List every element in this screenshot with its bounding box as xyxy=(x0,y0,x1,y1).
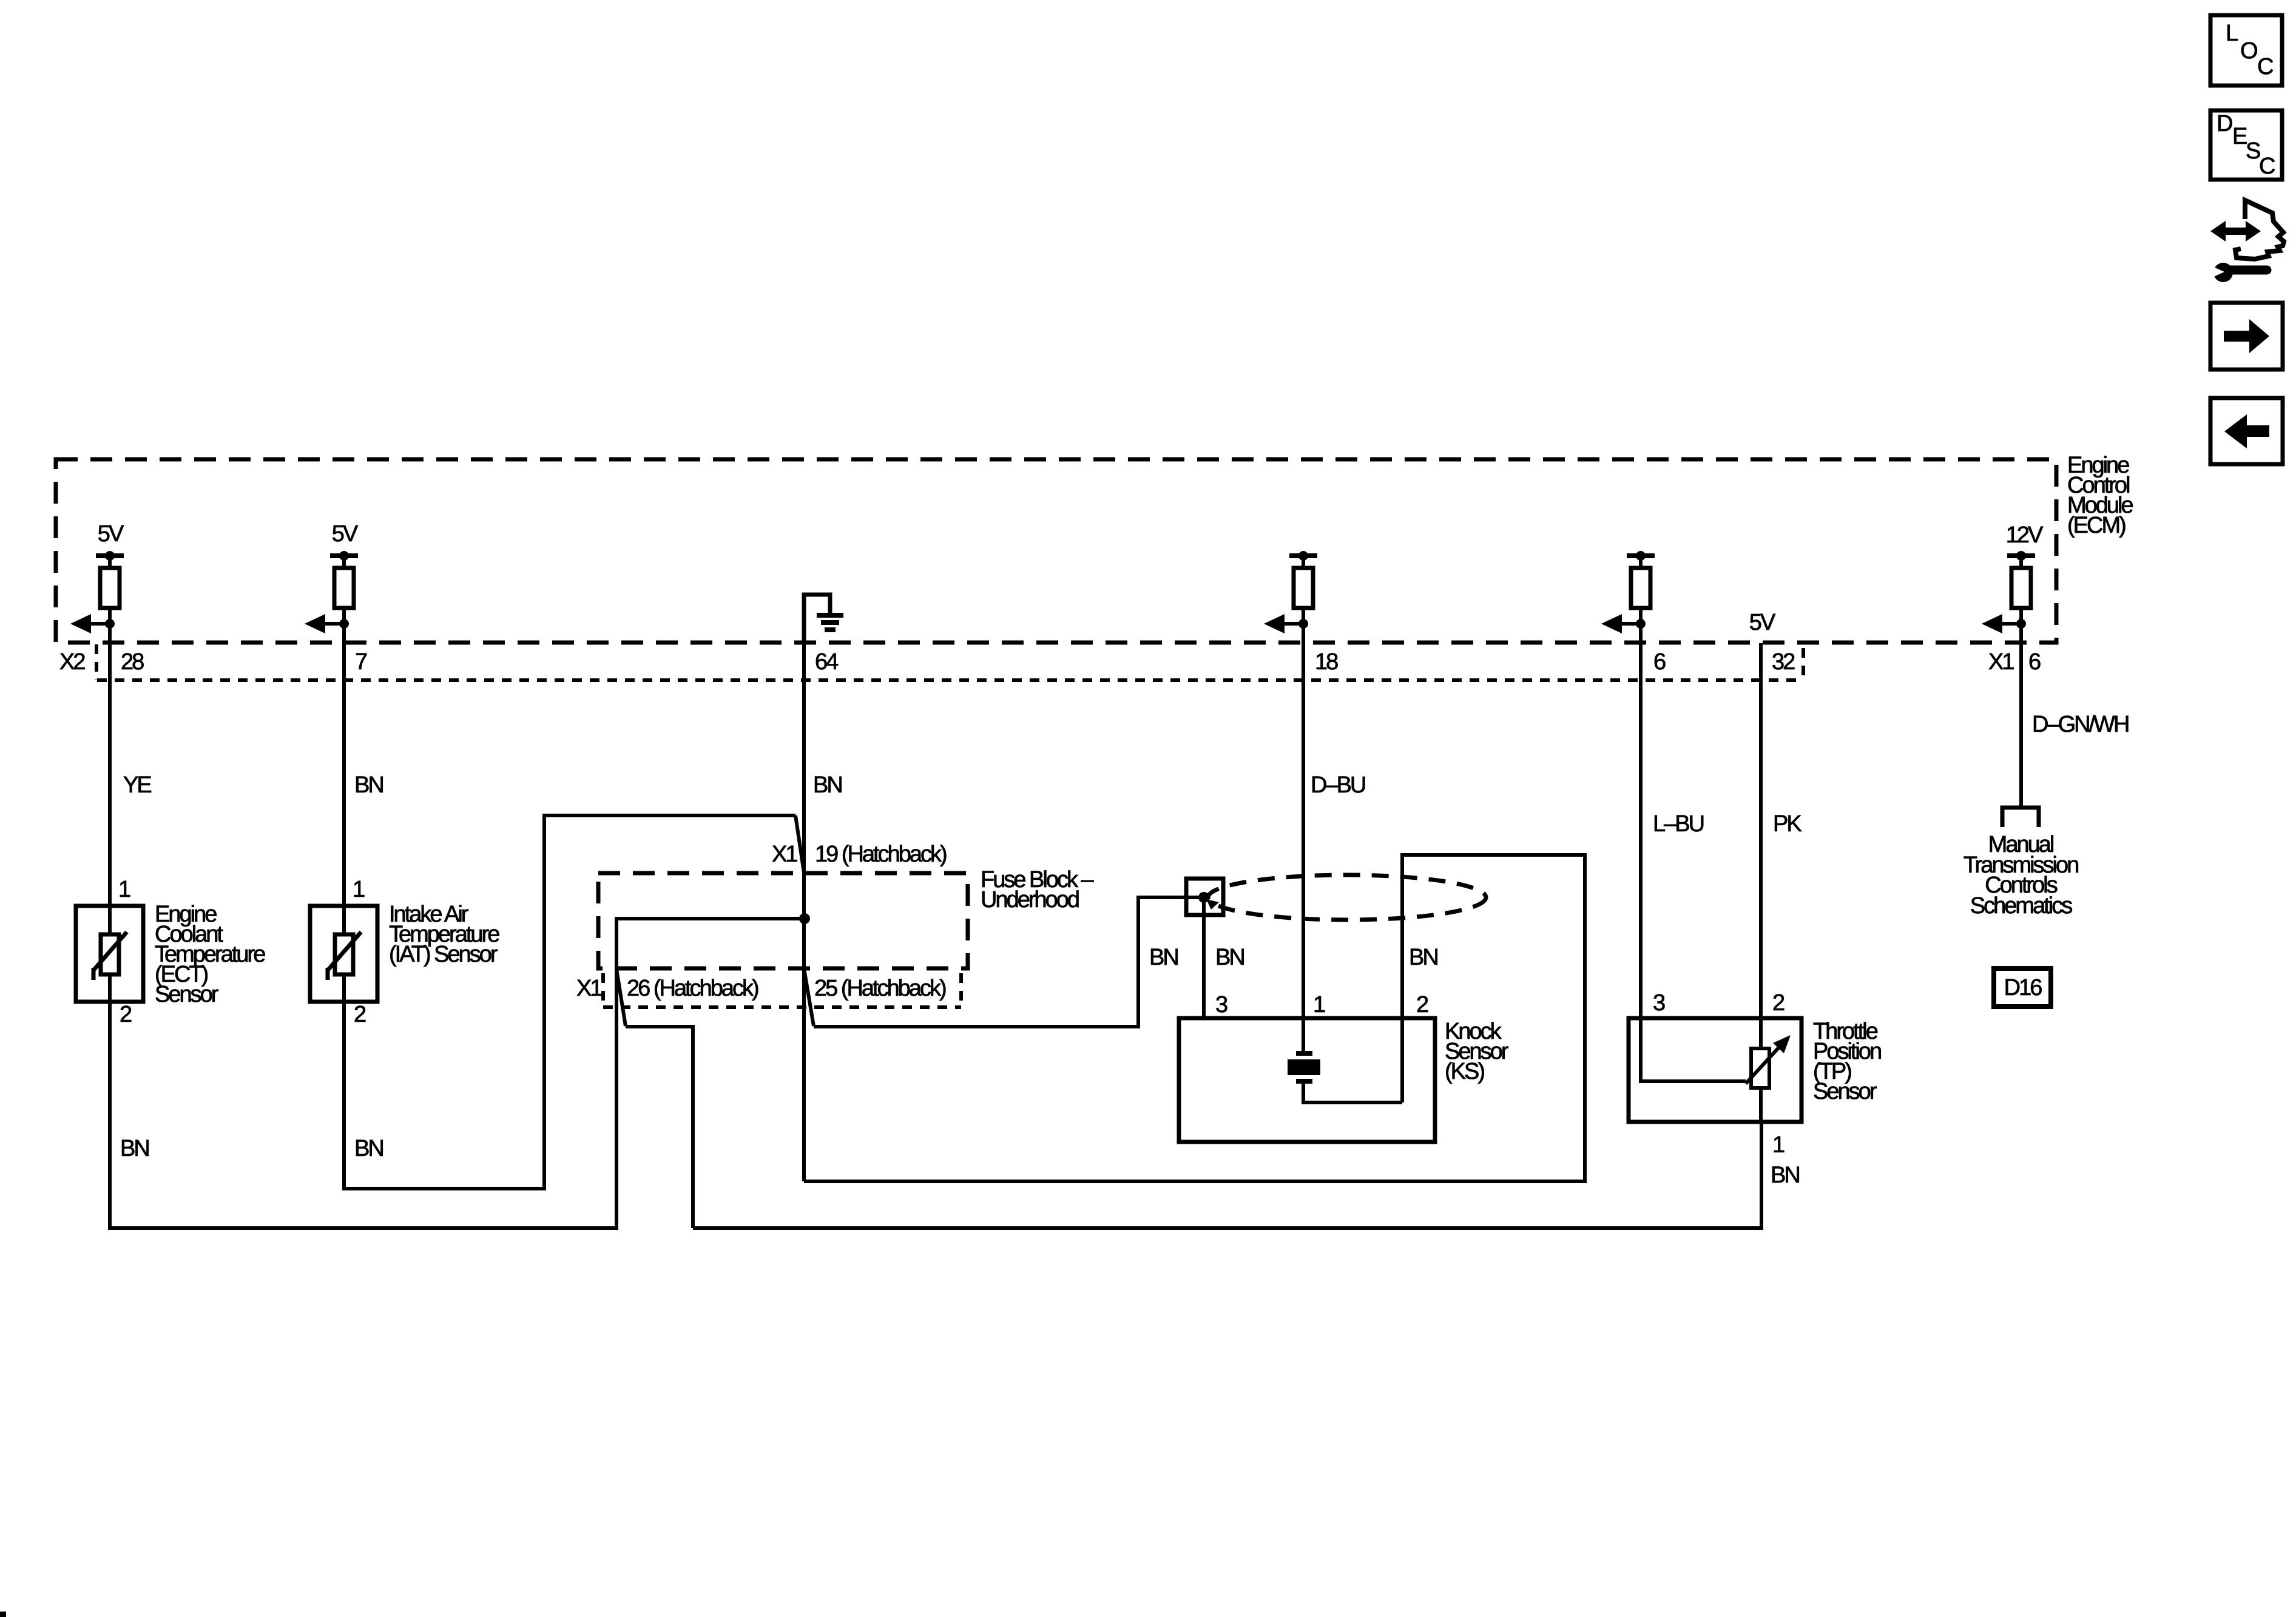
connector label X1 19 (Hatchback) xyxy=(772,842,947,867)
svg-text:BN: BN xyxy=(354,772,383,798)
Fuse Block dashed box xyxy=(598,873,968,968)
IAT sensor box xyxy=(310,906,377,1002)
resistor R-ECT 5V pull-up inside ECM xyxy=(96,521,124,608)
svg-text:BN: BN xyxy=(354,1136,383,1161)
svg-text:18: 18 xyxy=(1315,649,1338,675)
ECM pin 7 output arrow xyxy=(305,608,349,633)
KS piezo element xyxy=(1288,1053,1402,1102)
svg-text:25 (Hatchback): 25 (Hatchback) xyxy=(814,976,946,1001)
resistor R-KS pull-up inside ECM (pin 18) xyxy=(1289,551,1317,608)
ECM pin 18 input arrow xyxy=(1264,608,1308,633)
icon wrench with double arrow xyxy=(2208,200,2284,282)
svg-text:7: 7 xyxy=(355,649,367,675)
svg-text:12V: 12V xyxy=(2006,522,2044,548)
svg-text:1: 1 xyxy=(118,877,130,902)
svg-text:32: 32 xyxy=(1772,649,1795,675)
IAT sensor label xyxy=(389,902,499,967)
pin label X1 6 xyxy=(1988,649,2041,675)
svg-text:2: 2 xyxy=(1772,990,1784,1016)
svg-text:C: C xyxy=(2257,54,2273,79)
ECM connector X2/X1 dashed line xyxy=(96,644,1803,680)
KS shield splice box xyxy=(1186,879,1223,915)
svg-text:O: O xyxy=(2240,38,2257,64)
svg-text:(KS): (KS) xyxy=(1445,1059,1484,1084)
reference box D16 xyxy=(1994,968,2051,1007)
resistor R-MT 12V pull-up inside ECM (X1 pin 6) xyxy=(2006,522,2044,608)
icon LOC box xyxy=(2210,15,2282,86)
hatchback branch wire through X1 26 xyxy=(616,969,693,1228)
resistor R-TP pull-up inside ECM (pin 6) xyxy=(1627,551,1655,608)
svg-text:1: 1 xyxy=(1772,1132,1784,1158)
ECT sensor label xyxy=(155,902,265,1007)
hatchback branch wire through X1 25 to shield splice xyxy=(804,897,1204,1027)
wire D-GN/WH from ECM X1 6 to off-page connector xyxy=(2021,624,2129,808)
wire D-BU from ECM 18 to KS pin 1 xyxy=(1303,624,1365,1052)
svg-text:5V: 5V xyxy=(1749,610,1776,635)
TP potentiometer xyxy=(1641,1018,1791,1122)
page corner mark xyxy=(0,1612,6,1617)
svg-text:2: 2 xyxy=(1416,992,1428,1018)
wire BN from ECM 64 ground down through fuse block xyxy=(804,643,842,1181)
svg-text:Sensor: Sensor xyxy=(155,982,219,1007)
pin label 64 xyxy=(815,649,839,675)
svg-text:5V: 5V xyxy=(332,521,359,547)
svg-text:D16: D16 xyxy=(2004,975,2042,1001)
svg-text:L–BU: L–BU xyxy=(1653,811,1704,837)
svg-text:D: D xyxy=(2217,111,2232,137)
wire PK from ECM 32 to TP pin 2 xyxy=(1761,643,1801,1048)
svg-text:26 (Hatchback): 26 (Hatchback) xyxy=(627,976,758,1001)
ECM pin 28 output arrow xyxy=(70,608,115,633)
svg-text:S: S xyxy=(2246,138,2260,164)
svg-text:28: 28 xyxy=(121,649,144,675)
svg-text:1: 1 xyxy=(353,877,365,902)
svg-text:BN: BN xyxy=(1771,1163,1799,1188)
TP sensor box xyxy=(1629,1018,1801,1122)
svg-text:64: 64 xyxy=(815,649,839,675)
svg-text:(IAT) Sensor: (IAT) Sensor xyxy=(389,942,498,967)
IAT thermistor symbol xyxy=(328,906,361,1002)
svg-text:D–GN/WH: D–GN/WH xyxy=(2032,712,2129,737)
wire BN from IAT pin 2 up to X1 19 jog xyxy=(344,815,804,1189)
resistor R-IAT 5V pull-up inside ECM xyxy=(330,521,359,608)
pin label 18 xyxy=(1315,649,1338,675)
svg-text:Schematics: Schematics xyxy=(1970,893,2072,919)
icon DESC box xyxy=(2210,110,2282,180)
wire BN from ECT pin 2 to ground splice xyxy=(110,919,805,1228)
svg-text:BN: BN xyxy=(813,772,842,798)
svg-text:6: 6 xyxy=(2028,649,2041,675)
Knock Sensor box xyxy=(1179,1018,1435,1142)
svg-text:PK: PK xyxy=(1773,811,1801,837)
pin label 6 xyxy=(1653,649,1666,675)
svg-text:BN: BN xyxy=(1149,945,1178,970)
ECT sensor box xyxy=(76,906,143,1002)
svg-text:3: 3 xyxy=(1215,992,1227,1018)
svg-text:YE: YE xyxy=(123,772,151,798)
Fuse block X1 connector dashed line xyxy=(603,973,961,1007)
svg-text:2: 2 xyxy=(354,1002,366,1027)
svg-text:5V: 5V xyxy=(98,521,124,547)
splice junction dot in fuse block xyxy=(799,913,810,924)
5V supply label at ECM pin 32 xyxy=(1749,610,1776,635)
svg-text:X2: X2 xyxy=(59,649,85,675)
Manual Transmission reference label xyxy=(1963,832,2078,919)
wire BN from ECM 7 to IAT sensor pin 1 xyxy=(344,624,383,906)
svg-text:(ECM): (ECM) xyxy=(2067,513,2125,538)
svg-text:BN: BN xyxy=(1215,945,1244,970)
svg-text:Underhood: Underhood xyxy=(981,887,1079,913)
svg-text:3: 3 xyxy=(1653,990,1665,1016)
ground symbol inside ECM (pin 64) xyxy=(804,595,843,643)
svg-text:1: 1 xyxy=(1313,992,1325,1018)
icon forward arrow box xyxy=(2210,303,2283,370)
TP pin 1 BN label xyxy=(1771,1132,1799,1188)
Fuse Block label xyxy=(981,867,1095,913)
connector label X1 26 (Hatchback) 25 (Hatchback) xyxy=(576,976,946,1001)
ECM X1 pin 6 output arrow xyxy=(1982,608,2026,633)
pin label 7 xyxy=(355,649,367,675)
svg-text:X1: X1 xyxy=(1988,649,2014,675)
wire BN from shield splice to KS pin 3 xyxy=(1204,897,1244,1018)
icon back arrow box xyxy=(2210,398,2283,464)
KS label xyxy=(1445,1019,1509,1084)
svg-text:6: 6 xyxy=(1653,649,1666,675)
svg-text:C: C xyxy=(2259,154,2275,179)
wire BN from KS pin 2 loop to ground splice xyxy=(804,855,1585,1181)
ECM dashed box outline xyxy=(56,459,2056,643)
svg-text:E: E xyxy=(2232,124,2247,149)
pin label 32 xyxy=(1772,649,1795,675)
wire YE from ECM 28 to ECT sensor pin 1 xyxy=(110,624,151,906)
TP sensor label xyxy=(1813,1019,1881,1104)
shield dashed ellipse around KS wires xyxy=(1208,875,1486,920)
svg-text:19 (Hatchback): 19 (Hatchback) xyxy=(815,842,947,867)
svg-text:D–BU: D–BU xyxy=(1311,772,1365,798)
svg-text:Sensor: Sensor xyxy=(1813,1079,1877,1104)
ECM pin 6 input arrow xyxy=(1601,608,1646,633)
ECM label text xyxy=(2067,453,2133,538)
svg-text:BN: BN xyxy=(1409,945,1437,970)
svg-text:2: 2 xyxy=(120,1002,132,1027)
wire L-BU from ECM 6 to TP pin 3 xyxy=(1641,624,1704,1018)
svg-text:L: L xyxy=(2226,21,2238,46)
bottom BN bus wire xyxy=(693,1122,1761,1228)
off-page connector bracket xyxy=(2002,808,2039,827)
svg-text:BN: BN xyxy=(120,1136,149,1161)
pin label X2 28 xyxy=(59,649,144,675)
svg-text:X1: X1 xyxy=(772,842,797,867)
ECT thermistor symbol xyxy=(93,906,127,1002)
svg-text:X1: X1 xyxy=(576,976,602,1001)
